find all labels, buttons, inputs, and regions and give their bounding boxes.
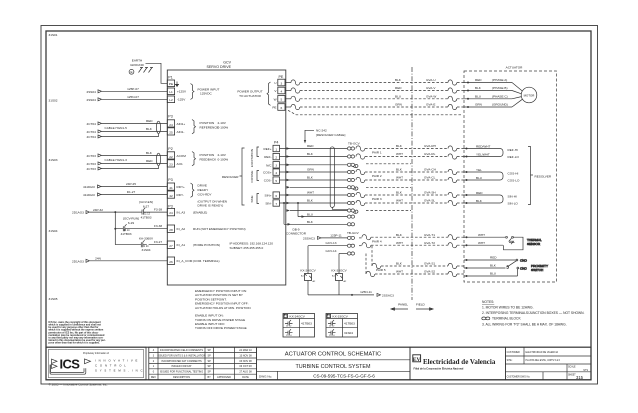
svg-text:GVA-V: GVA-V — [426, 86, 436, 90]
emergency position note — [195, 289, 251, 310]
svg-text:BLU: BLU — [475, 94, 481, 98]
svg-text:0-100%: 0-100% — [218, 126, 229, 130]
svg-text:CABLE HGN1-3: CABLE HGN1-3 — [105, 158, 128, 162]
drive ready brace — [191, 183, 195, 197]
svg-text:RDY-: RDY- — [177, 193, 184, 197]
wire 24P-32 — [90, 208, 138, 212]
terminal block legend symbol — [482, 317, 490, 320]
svg-text:U: U — [274, 81, 276, 85]
svg-text:125N-07: 125N-07 — [127, 95, 139, 99]
node 4CT03 (red) — [87, 162, 102, 166]
NC-242 resolver cable annotation — [304, 129, 346, 144]
svg-text:SIN+: SIN+ — [265, 194, 272, 198]
svg-text:SWITCH: SWITCH — [531, 268, 543, 272]
relay coil KX-24GCV — [300, 246, 316, 295]
svg-text:31S05: 31S05 — [49, 297, 58, 301]
svg-text:RESOLVER: RESOLVER — [535, 175, 552, 179]
node 4CT03 (shield) — [87, 167, 102, 171]
svg-text:REV: REV — [151, 376, 156, 379]
shield pigtail PAIR 3 — [353, 210, 358, 213]
svg-text:BLK: BLK — [307, 220, 314, 224]
motor wire color labels — [475, 78, 508, 107]
twisted pair PAIR 4 wire hi — [362, 233, 464, 240]
svg-text:TB-GCV: TB-GCV — [348, 142, 361, 146]
svg-text:3: 3 — [281, 81, 283, 85]
DRIVE READY label — [198, 184, 228, 208]
svg-text:24 MAR 10: 24 MAR 10 — [239, 349, 252, 352]
svg-text:ACTUATOR: ACTUATOR — [506, 66, 523, 70]
svg-text:TB-GCV: TB-GCV — [347, 231, 360, 235]
resolver shield3 wire — [287, 209, 348, 212]
cosine brace — [257, 171, 259, 181]
connector P3 pin 27 IN_A1 — [167, 241, 174, 248]
wire 125P-07 — [102, 87, 168, 91]
svg-text:NTS: NTS — [583, 370, 588, 372]
terminal TB-GCV shield 1 — [347, 163, 354, 166]
svg-text:TO ACTUATOR: TO ACTUATOR — [239, 94, 261, 98]
svg-text:125VDC: 125VDC — [200, 92, 212, 96]
svg-text:13 14: 13 14 — [124, 229, 131, 232]
pair 1 shield drain dashed — [366, 163, 411, 165]
proximity switch wires — [464, 256, 518, 277]
svg-text:2D1AG3: 2D1AG3 — [72, 259, 84, 263]
svg-text:NOTES:: NOTES: — [482, 300, 494, 304]
svg-text:AIN1-: AIN1- — [177, 130, 185, 134]
wire BLK shield — [284, 220, 347, 226]
connector P2 pin 22 — [167, 152, 174, 159]
svg-text:BLK: BLK — [396, 168, 403, 172]
svg-text:31S04: 31S04 — [49, 229, 58, 233]
svg-text:(COM. TERMINAL): (COM. TERMINAL) — [193, 259, 220, 263]
resolver winding wires SIN-HI/SIN-LO — [464, 191, 518, 206]
title block top line — [46, 346, 591, 348]
copyright paragraph — [49, 321, 106, 345]
connector P2 pin 4 — [278, 87, 285, 94]
svg-text:P3: P3 — [168, 178, 172, 182]
svg-text:SIN-: SIN- — [265, 201, 271, 205]
motor phase W wire — [285, 94, 512, 101]
svg-text:4CT04: 4CT04 — [87, 135, 97, 139]
svg-text:YEL: YEL — [476, 168, 482, 172]
wire F3-38 to pin 24 — [148, 207, 168, 212]
svg-text:-125V: -125V — [177, 98, 186, 102]
svg-text:SENSOR: SENSOR — [527, 242, 541, 246]
svg-text:PANEL: PANEL — [398, 303, 408, 307]
svg-text:F3-38: F3-38 — [154, 224, 162, 228]
contact GCV-RUN — [115, 217, 139, 237]
node 4119GCI (rdy-) — [83, 193, 101, 197]
svg-text:BLU: BLU — [307, 212, 313, 216]
svg-text:DWG No.: DWG No. — [259, 374, 272, 378]
twisted pair PAIR 3 wire lo — [356, 199, 464, 206]
terminal TB-GCV blu — [347, 215, 354, 218]
svg-text:RED: RED — [395, 86, 402, 90]
svg-text:GRN: GRN — [307, 168, 314, 172]
svg-text:PAIR 3: PAIR 3 — [372, 197, 382, 201]
connector P3 pin 26 IN_A_COM — [167, 257, 174, 264]
svg-text:1: 1 — [275, 147, 277, 151]
svg-text:2. INTERPOSING TERMINALS/JUN: 2. INTERPOSING TERMINALS/JUNCTION BOXES … — [482, 311, 585, 315]
svg-text:SIN-LO: SIN-LO — [508, 202, 519, 206]
sheet outer border — [41, 26, 598, 385]
svg-text:AIN1+: AIN1+ — [177, 122, 186, 126]
svg-text:4: 4 — [275, 171, 277, 175]
power output brace — [267, 82, 271, 105]
svg-text:GVA-RL: GVA-RL — [424, 152, 436, 156]
connector P4 pin 4 — [273, 169, 280, 175]
svg-text:BLU: BLU — [490, 272, 496, 276]
svg-text:13 14: 13 14 — [329, 335, 335, 337]
svg-text:CABLE HGN1-5: CABLE HGN1-5 — [105, 126, 128, 130]
svg-text:13 NOV 08: 13 NOV 08 — [239, 354, 252, 357]
svg-text:BLK: BLK — [396, 233, 403, 237]
svg-text:31S04: 31S04 — [344, 331, 353, 335]
motor ground wire — [285, 103, 512, 110]
svg-text:P3: P3 — [168, 115, 172, 119]
IP address annotation — [230, 242, 274, 250]
svg-text:GVA-T2: GVA-T2 — [424, 241, 435, 245]
svg-text:31S02: 31S02 — [49, 99, 58, 103]
svg-text:PAIR 5: PAIR 5 — [376, 268, 386, 272]
svg-text:FEEDBACK: FEEDBACK — [200, 158, 218, 162]
svg-text:L1: L1 — [169, 90, 173, 94]
svg-text:REFERENCE: REFERENCE — [200, 126, 219, 130]
svg-text:125P-11: 125P-11 — [330, 233, 342, 237]
notes — [482, 300, 585, 326]
svg-text:INCORPORATED FAT COMMENTS: INCORPORATED FAT COMMENTS — [161, 360, 202, 363]
svg-text:21 24: 21 24 — [143, 245, 150, 248]
terminal TB-GCV pair2 hi — [347, 170, 354, 173]
svg-text:KX-24GCV: KX-24GCV — [290, 315, 306, 319]
svg-text:GCV-14: GCV-14 — [325, 249, 336, 253]
node 4CT04 (blk) — [87, 130, 102, 134]
connector P3 pin 42 — [167, 191, 174, 198]
actuator dashed enclosure — [464, 66, 557, 283]
connector P3 pin 25 — [167, 128, 174, 135]
svg-text:7: 7 — [275, 202, 277, 206]
svg-text:IN_A2: IN_A2 — [177, 227, 186, 231]
motor phase U wire — [285, 78, 512, 85]
svg-text:2SS04: 2SS04 — [87, 90, 97, 94]
svg-text:Filial de la Corporación Eléct: Filial de la Corporación Eléctrica Nacio… — [414, 368, 464, 371]
resolver wire pin2 BLK — [280, 152, 348, 158]
pair 3 shield drain dashed — [366, 210, 411, 212]
connector P4 pin 3 — [273, 162, 280, 168]
node 2D1AG3 (com) — [72, 259, 90, 263]
node 2SSAC3 feed — [303, 236, 321, 240]
svg-text:125P-07: 125P-07 — [127, 87, 139, 91]
svg-text:REF-: REF- — [264, 155, 271, 159]
svg-text:BLK: BLK — [307, 199, 314, 203]
connector P3 pin 24 IN_A3 — [167, 208, 174, 215]
svg-text:WHT: WHT — [478, 233, 485, 237]
svg-text:SP: SP — [208, 354, 212, 357]
svg-text:CUSTOMER DWG No.: CUSTOMER DWG No. — [507, 376, 531, 378]
shield pigtail PAIR 2 — [353, 187, 358, 190]
twisted pair PAIR 4 wire lo — [359, 241, 464, 248]
svg-text:GVA-CL: GVA-CL — [424, 176, 436, 180]
cable bundle rail 2 — [297, 202, 299, 217]
svg-text:EXCITATION: EXCITATION — [250, 149, 254, 167]
svg-text:6-29: 6-29 — [128, 221, 134, 225]
terminal TB-GCV blk — [347, 223, 354, 226]
svg-text:(PHASE C): (PHASE C) — [492, 94, 508, 98]
svg-text:24N: 24N — [95, 257, 101, 261]
twisted pair PAIR 2 wire lo — [356, 176, 464, 183]
svg-text:1. MOTOR WIRES TO BE 12AWG.: 1. MOTOR WIRES TO BE 12AWG. — [482, 306, 534, 310]
svg-text:ACTUATOR CONTROL SCHEMATIC: ACTUATOR CONTROL SCHEMATIC — [285, 352, 381, 358]
svg-text:POSITION: POSITION — [200, 121, 215, 125]
EV logo cell — [410, 347, 505, 380]
svg-text:IN_A1: IN_A1 — [177, 243, 186, 247]
connector P4 pin 7 — [273, 200, 280, 206]
svg-text:TURNS OFF DRIVE POWER STAG: TURNS OFF DRIVE POWER STAGE — [195, 326, 247, 330]
svg-text:27 AUG 08: 27 AUG 08 — [239, 371, 252, 374]
svg-text:KX-33GCV: KX-33GCV — [331, 269, 347, 273]
connector P2 pin 5 — [278, 96, 285, 103]
contact GCV-EN — [138, 200, 153, 220]
contact KA-3360V — [115, 237, 154, 252]
svg-text:SP: SP — [208, 360, 212, 363]
svg-text:COS-: COS- — [264, 179, 272, 183]
node 4CT04 (red) — [87, 122, 102, 126]
svg-text:SITE:: SITE: — [507, 360, 513, 362]
svg-text:BLK: BLK — [396, 191, 403, 195]
svg-text:BLK: BLK — [475, 86, 482, 90]
svg-text:N/C: N/C — [266, 163, 272, 167]
svg-text:13 14: 13 14 — [286, 335, 292, 337]
svg-text:GCV-13: GCV-13 — [325, 241, 336, 245]
svg-text:WHT: WHT — [396, 199, 403, 203]
svg-text:PLANTA DEL ESTE, UNITS 5: PLANTA DEL ESTE, UNITS 5 & 6 — [526, 359, 561, 362]
svg-text:SINE: SINE — [250, 195, 254, 202]
svg-text:CUSTOMER: CUSTOMER — [507, 352, 520, 354]
terminal TB-GCV pair2 lo — [347, 178, 354, 181]
svg-text:COS-HI: COS-HI — [508, 172, 519, 176]
POWER INPUT 125VDC label — [198, 87, 220, 95]
pair 2 shield drain dashed — [366, 186, 411, 188]
svg-text:E: E — [130, 70, 132, 74]
svg-text:KX-33GCV: KX-33GCV — [333, 315, 349, 319]
connector P4 pin 1 — [273, 145, 280, 151]
motor M1 — [512, 83, 537, 108]
connector P4 pin 2 — [273, 153, 280, 159]
svg-text:EV: EV — [413, 357, 421, 363]
terminal GCV-14 — [347, 252, 354, 255]
terminal TB-GCV pair3 hi — [347, 193, 354, 196]
proximity switch PS1 — [507, 259, 549, 277]
shield pigtail PAIR 1 — [353, 164, 358, 167]
motor cable shield wire — [288, 110, 462, 115]
svg-text:2-10V: 2-10V — [218, 153, 227, 157]
relay coil KX-33GCV — [331, 254, 347, 295]
terminal TB-GCV shield 3 — [347, 209, 354, 212]
svg-text:GVA-SH: GVA-SH — [424, 191, 436, 195]
node 4CT04 (shield) — [87, 135, 102, 139]
svg-text:CS-09-595-TCS-FS-G-GF-5-6: CS-09-595-TCS-FS-G-GF-5-6 — [313, 374, 375, 379]
connector P3 pin 41 — [167, 183, 174, 190]
wire F3-38 to pin 28 — [129, 224, 168, 229]
svg-text:KX-24GCV: KX-24GCV — [300, 269, 316, 273]
svg-text:GCV-RDY: GCV-RDY — [198, 192, 212, 196]
svg-text:BLK: BLK — [395, 78, 402, 82]
POWER OUTPUT TO ACTUATOR label — [237, 90, 262, 98]
svg-text:SIN-HI: SIN-HI — [508, 195, 517, 199]
node 2SS04 (L2) — [87, 98, 102, 102]
svg-text:RESOLVER: RESOLVER — [222, 175, 239, 179]
sine brace — [257, 194, 259, 204]
wire RED to pin 23 — [102, 159, 168, 163]
cable HGN1-5 shield — [102, 121, 161, 136]
thermal sensor wires — [464, 233, 505, 246]
twisted pair PAIR 1 wire lo — [356, 152, 464, 159]
resolver wire pin4 GRN — [280, 168, 348, 174]
svg-text:31S03: 31S03 — [49, 158, 58, 162]
svg-text:RED: RED — [146, 119, 153, 123]
svg-text:WHT: WHT — [396, 241, 403, 245]
svg-text:REF-LO: REF-LO — [508, 155, 520, 159]
resolver winding wires REF-HI/REF-LO — [464, 144, 519, 159]
connector P3 pin 28 IN_A2 — [167, 225, 174, 232]
relay crossref box KX-24GCV — [283, 314, 315, 338]
power input brace — [191, 84, 195, 100]
svg-text:125N-11: 125N-11 — [360, 290, 372, 294]
svg-text:24P-32: 24P-32 — [93, 208, 103, 212]
svg-text:ACTUATOR HOLDS AT MIN. POS: ACTUATOR HOLDS AT MIN. POSITION — [195, 306, 251, 310]
connector P2 pin 23 — [167, 160, 174, 167]
svg-text:WHT: WHT — [396, 270, 403, 274]
svg-text:pose other than that for which: pose other than that for which it is sup… — [49, 342, 101, 345]
svg-text:41TB03: 41TB03 — [121, 232, 132, 236]
svg-text:PAIR 1: PAIR 1 — [372, 151, 382, 155]
svg-text:4CT04: 4CT04 — [87, 122, 97, 126]
svg-text:RED: RED — [490, 256, 497, 260]
svg-text:BLK: BLK — [146, 151, 153, 155]
resolver wire pin7 BLK — [280, 199, 348, 205]
svg-text:W: W — [274, 97, 277, 101]
wire BLK to pin 22 — [102, 151, 168, 155]
svg-text:4119GCI: 4119GCI — [83, 185, 95, 189]
svg-text:27: 27 — [169, 244, 173, 248]
svg-text:BLK: BLK — [307, 176, 314, 180]
terminal TB-GCV 125P-11 — [347, 236, 354, 239]
svg-text:IN_A3: IN_A3 — [177, 211, 186, 215]
svg-text:06 OCT 08: 06 OCT 08 — [239, 365, 252, 368]
svg-text:2SS04: 2SS04 — [87, 98, 97, 102]
connector P4 pin 6 — [273, 192, 280, 198]
svg-text:COS+: COS+ — [263, 171, 272, 175]
cable bundle rail 1 — [283, 202, 285, 224]
svg-text:31S01: 31S01 — [49, 33, 58, 37]
svg-text:RUN (NOT EMERGENCY POSITION: RUN (NOT EMERGENCY POSITION) — [193, 227, 245, 231]
svg-text:DATE: DATE — [242, 376, 249, 379]
svg-text:COS-LO: COS-LO — [508, 179, 520, 183]
svg-text:(GROUND): (GROUND) — [492, 103, 508, 107]
svg-text:GVA-S1: GVA-S1 — [424, 262, 435, 266]
connector P2 pin 3 — [278, 79, 285, 86]
svg-text:4CT04: 4CT04 — [87, 130, 97, 134]
svg-text:GVA-E: GVA-E — [426, 103, 435, 107]
connector P2 pin 6 — [278, 104, 285, 111]
terminal TB-GCV pair3 lo — [347, 201, 354, 204]
svg-text:Proprietary Information of: Proprietary Information of — [83, 352, 109, 355]
svg-text:0-100%: 0-100% — [218, 158, 229, 162]
svg-text:GRN: GRN — [395, 103, 402, 107]
connector P1 pin PE — [167, 80, 174, 87]
svg-text:SP: SP — [208, 371, 212, 374]
svg-text:4: 4 — [281, 89, 283, 93]
svg-text:SCALE: SCALE — [568, 366, 576, 369]
svg-text:11 12: 11 12 — [329, 326, 335, 328]
terminal GCV-13 — [347, 244, 354, 247]
customer info table — [505, 347, 591, 380]
svg-text:P3: P3 — [168, 204, 172, 208]
svg-text:RED/WHT: RED/WHT — [476, 144, 491, 148]
svg-text:41: 41 — [169, 186, 173, 190]
resolver bracket and label — [528, 147, 552, 205]
junction at enable branch — [114, 211, 116, 213]
cable shield drain wire — [332, 207, 347, 209]
svg-text:YEL/WHT: YEL/WHT — [476, 152, 490, 156]
svg-text:PE: PE — [279, 75, 284, 79]
svg-text:GVA-S2: GVA-S2 — [424, 270, 435, 274]
position reference brace — [192, 120, 196, 134]
svg-text:+125V: +125V — [177, 90, 187, 94]
connector P1 pin L1 — [167, 88, 174, 95]
svg-text:TURBINE CONTROL SYSTEM: TURBINE CONTROL SYSTEM — [296, 364, 371, 370]
svg-text:24: 24 — [169, 211, 173, 215]
wire D1-27 — [101, 190, 167, 194]
svg-text:BLK: BLK — [396, 262, 403, 266]
POSITION REFERENCE label — [200, 121, 229, 130]
svg-text:REF+: REF+ — [264, 147, 272, 151]
svg-text:BLK: BLK — [146, 127, 153, 131]
svg-text:C O N T R O L: C O N T R O L — [95, 363, 127, 367]
wire 125N-07 — [102, 95, 168, 99]
svg-text:APPROVED: APPROVED — [217, 376, 231, 379]
svg-text:BLU: BLU — [476, 176, 482, 180]
svg-text:6: 6 — [275, 194, 277, 198]
svg-text:GVA-W: GVA-W — [426, 94, 436, 98]
wire GCV-14 — [325, 249, 347, 254]
svg-text:5: 5 — [275, 179, 277, 183]
motor phase V wire — [285, 86, 512, 93]
svg-text:BLU: BLU — [395, 94, 401, 98]
svg-text:41TB03: 41TB03 — [301, 322, 312, 326]
svg-text:DESCRIPTION: DESCRIPTION — [173, 376, 190, 379]
junction dots motor wires — [467, 82, 469, 109]
svg-text:ACOM: ACOM — [177, 154, 187, 158]
svg-text:41TB03: 41TB03 — [344, 322, 355, 326]
svg-text:2SSAC3: 2SSAC3 — [382, 293, 394, 297]
svg-text:RED: RED — [307, 144, 314, 148]
svg-text:D1-27: D1-27 — [127, 190, 136, 194]
DB-9 connector label — [286, 228, 307, 236]
twisted pair PAIR 5 wire hi — [372, 262, 464, 269]
svg-text:GVA-SL: GVA-SL — [424, 199, 435, 203]
svg-text:BY: BY — [208, 376, 212, 379]
svg-text:SP: SP — [208, 365, 212, 368]
svg-text:SP: SP — [208, 349, 212, 352]
svg-text:23: 23 — [169, 163, 173, 167]
svg-text:2-10V: 2-10V — [218, 121, 227, 125]
branch wire down — [114, 212, 116, 245]
resolver cable sheath — [330, 147, 334, 208]
svg-text:11 12: 11 12 — [144, 213, 150, 216]
twisted pair PAIR 2 wire hi — [356, 168, 464, 175]
revision rows text — [151, 349, 253, 379]
svg-text:PAIR 2: PAIR 2 — [372, 174, 382, 178]
